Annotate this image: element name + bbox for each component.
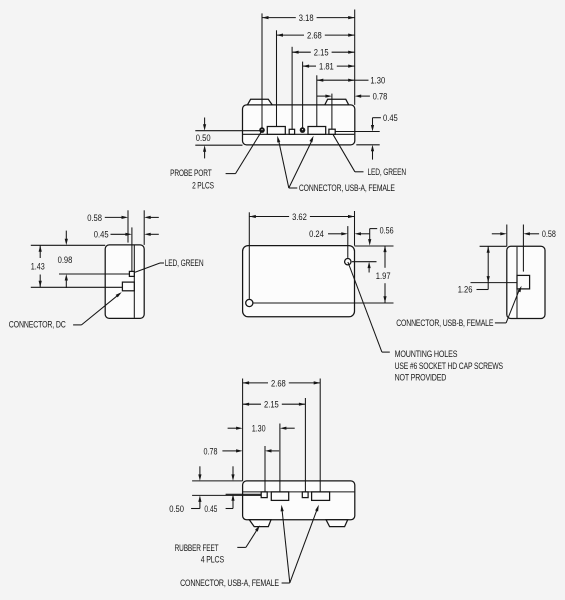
front view: right top bump xyxy=(325,99,349,105)
leader from led (left view) xyxy=(135,263,160,272)
svg-text:CONNECTOR, USB-A, FEMALE: CONNECTOR, USB-A, FEMALE xyxy=(180,578,279,588)
svg-text:0.45: 0.45 xyxy=(204,504,217,514)
left view: top edge extension line xyxy=(31,244,105,246)
dimension 1.81 (to probe port 2) xyxy=(303,65,316,67)
extension line to USB-A connector 2 center xyxy=(316,75,318,126)
svg-text:0.58: 0.58 xyxy=(542,229,556,239)
right side view: usb-b connector component xyxy=(517,275,530,289)
front view: USB-A connector 2 xyxy=(308,127,326,135)
rear view: component base line xyxy=(243,491,354,493)
dimension 3.62 (hole to right edge) xyxy=(249,216,289,218)
extension line at right view left edge xyxy=(506,225,508,247)
dimension 0.50 (front view left, base height) xyxy=(204,118,206,126)
svg-text:CONNECTOR, USB-B, FEMALE: CONNECTOR, USB-B, FEMALE xyxy=(396,318,493,328)
dimension 1.30 (to USB-A 2) xyxy=(317,79,355,81)
leader from probe port label to probe port 1 xyxy=(226,173,236,175)
svg-text:CONNECTOR, DC: CONNECTOR, DC xyxy=(9,320,66,330)
svg-text:0.78: 0.78 xyxy=(204,446,218,456)
front view: probe port 1 (dark ring) xyxy=(259,127,265,133)
leader from usb-a label to both connectors (front) xyxy=(289,187,298,189)
svg-text:1.97: 1.97 xyxy=(376,271,391,281)
dimension 0.45 (front view right) xyxy=(373,117,381,119)
extension line for 0.45 to led center (left view) xyxy=(131,227,133,271)
right side view: enclosure outline xyxy=(507,246,545,318)
plan view: top edge extension line right xyxy=(355,245,394,247)
svg-text:0.24: 0.24 xyxy=(309,229,324,239)
dimension 0.58 (right view) xyxy=(492,233,502,235)
leader from rubber feet label to left foot xyxy=(237,546,246,548)
extension line at rear view left edge xyxy=(242,379,244,481)
leader from right mounting hole to mounting holes note xyxy=(348,262,382,352)
plan view: line from right mounting hole to 0.56 reference xyxy=(352,261,377,263)
extension line at enclosure right edge xyxy=(354,10,356,105)
extension line to probe port 2 center xyxy=(302,62,304,129)
svg-text:LED, GREEN: LED, GREEN xyxy=(368,167,407,177)
svg-text:3.62: 3.62 xyxy=(292,212,307,222)
extension line to rear small port 2 xyxy=(304,398,306,492)
extension line to LED center xyxy=(331,94,333,130)
rear view: usb-a connector 2 xyxy=(312,492,330,501)
right view: usb-b center reference line xyxy=(471,282,518,284)
dimension 0.98 (top to led) xyxy=(65,231,67,241)
dimension 2.15 (rear) xyxy=(243,403,261,405)
extension line to small port 1 center xyxy=(291,47,293,130)
front view: USB-A connector 1 xyxy=(267,127,285,135)
dimension 0.78 (to LED) xyxy=(317,95,328,97)
extension line to rear usb-a 2 xyxy=(319,379,321,492)
left side view: inner face line xyxy=(133,245,135,318)
left side view: enclosure outline xyxy=(105,245,144,319)
svg-text:1.43: 1.43 xyxy=(31,262,45,272)
front view: probe-port center line, right segment (0.45 reference) xyxy=(335,131,380,133)
rear view: enclosure outline xyxy=(243,481,355,520)
extension line to rear usb-a 1 xyxy=(279,424,281,492)
rear view: small port 2 xyxy=(302,492,308,498)
leader from rear usb-a label to both connectors xyxy=(282,582,290,584)
svg-text:0.78: 0.78 xyxy=(373,92,388,102)
left view: led center reference line xyxy=(59,273,129,275)
rear view: probe line extension (0.45 reference) xyxy=(226,493,262,495)
front view: bottom edge extension line left xyxy=(195,144,242,146)
rear view: usb-a connector 1 xyxy=(271,492,288,501)
dimension 1.97 (top edge to interior line) xyxy=(384,246,386,268)
rear view: top edge extension line left xyxy=(192,480,243,482)
svg-text:LED, GREEN: LED, GREEN xyxy=(165,258,204,268)
svg-text:0.45: 0.45 xyxy=(383,113,398,123)
extension line from 0.24 to right mounting hole xyxy=(347,226,349,258)
extension line for 0.58 (left view) xyxy=(127,210,129,242)
extension line to probe port 1 center xyxy=(261,13,263,128)
dimension 0.78 (rear) xyxy=(222,450,237,452)
front view: bottom edge extension line right xyxy=(356,144,379,146)
svg-text:0.45: 0.45 xyxy=(94,230,109,240)
dimension 1.43 (top to dc connector) xyxy=(39,245,41,258)
svg-text:1.81: 1.81 xyxy=(319,62,334,72)
front view: probe port 2 (dark ring) xyxy=(300,127,306,133)
svg-text:0.50: 0.50 xyxy=(196,133,211,143)
leader from led label to led (front) xyxy=(333,135,355,172)
rear view: probe line extension left (0.50 reference) xyxy=(192,494,261,496)
svg-text:CONNECTOR, USB-A, FEMALE: CONNECTOR, USB-A, FEMALE xyxy=(299,183,395,193)
svg-text:2.68: 2.68 xyxy=(307,31,322,41)
right side view: inner face line xyxy=(516,247,518,318)
left view: dc connector center reference line xyxy=(31,286,123,288)
leader from usb-b label to usb-b connector xyxy=(495,322,506,324)
extension line to USB-A connector 1 center xyxy=(276,30,278,126)
front view: probe-port center line, left segment (0.50 reference) xyxy=(195,130,260,132)
svg-text:RUBBER FEET: RUBBER FEET xyxy=(175,543,219,553)
svg-text:USE #6 SOCKET HD CAP SCREWS: USE #6 SOCKET HD CAP SCREWS xyxy=(395,361,503,371)
front view: small port 1 xyxy=(289,129,294,134)
svg-text:0.50: 0.50 xyxy=(169,504,184,514)
dimension 0.56 (top edge to hole center) xyxy=(370,228,378,230)
dimension 3.18 (overall to probe port 1) xyxy=(262,17,296,19)
svg-text:2.15: 2.15 xyxy=(264,400,279,410)
svg-text:1.30: 1.30 xyxy=(252,424,266,434)
plan view: interior line from left mounting hole, extends right for 1.97 xyxy=(253,302,393,304)
svg-text:1.30: 1.30 xyxy=(370,76,385,86)
front view: LED, green xyxy=(329,129,335,134)
extension line to rear small port 1 xyxy=(264,446,266,492)
rear view: rubber foot left xyxy=(249,520,271,527)
svg-text:MOUNTING HOLES: MOUNTING HOLES xyxy=(395,349,458,359)
svg-text:PROBE PORT: PROBE PORT xyxy=(170,168,212,178)
svg-text:2.15: 2.15 xyxy=(314,48,329,58)
left side view: led green component xyxy=(129,271,134,276)
plan view: enclosure outline (top face) xyxy=(243,246,355,317)
dimension 2.68 (to USB-A 1) xyxy=(277,34,305,36)
dimension 0.45 (rear) xyxy=(232,466,234,476)
svg-text:4 PLCS: 4 PLCS xyxy=(201,554,224,564)
leader from dc connector label xyxy=(73,324,81,326)
plan view: mounting hole left xyxy=(246,299,253,306)
extension line to usb-b center (right view) xyxy=(522,225,524,272)
svg-text:2 PLCS: 2 PLCS xyxy=(192,180,214,190)
dimension 1.30 (rear) xyxy=(228,427,238,429)
right view: top edge extension line xyxy=(480,245,507,247)
dimension 0.45 (left view) xyxy=(111,233,127,235)
dimension 0.58 (left view) xyxy=(105,216,123,218)
svg-text:NOT PROVIDED: NOT PROVIDED xyxy=(395,373,447,383)
front view: component base line inside enclosure xyxy=(243,133,354,135)
dimension 0.50 (rear) xyxy=(199,466,201,476)
rear view: rubber foot right xyxy=(326,520,348,527)
svg-text:0.56: 0.56 xyxy=(380,226,394,236)
rear view: small port 1 xyxy=(261,492,267,498)
dimension 2.15 (to small port 1) xyxy=(292,51,311,53)
left side view: dc connector component xyxy=(122,282,134,291)
front view: left top bump xyxy=(247,99,272,105)
svg-text:1.26: 1.26 xyxy=(458,285,473,295)
svg-text:2.68: 2.68 xyxy=(271,378,286,388)
front view: enclosure outline xyxy=(243,105,355,145)
extension line at plan right edge xyxy=(354,211,356,246)
dimension 1.26 (top to usb-b center) xyxy=(487,246,489,282)
svg-text:0.58: 0.58 xyxy=(87,213,102,223)
svg-text:0.98: 0.98 xyxy=(58,255,73,265)
dimension 2.68 (rear) xyxy=(243,382,268,384)
extension line from 3.62 to left mounting hole xyxy=(248,212,250,299)
dimension 0.24 (hole to edge) xyxy=(328,233,343,235)
extension line at left view right edge xyxy=(143,210,145,245)
plan view: mounting hole right xyxy=(345,259,351,265)
svg-text:3.18: 3.18 xyxy=(299,13,314,23)
